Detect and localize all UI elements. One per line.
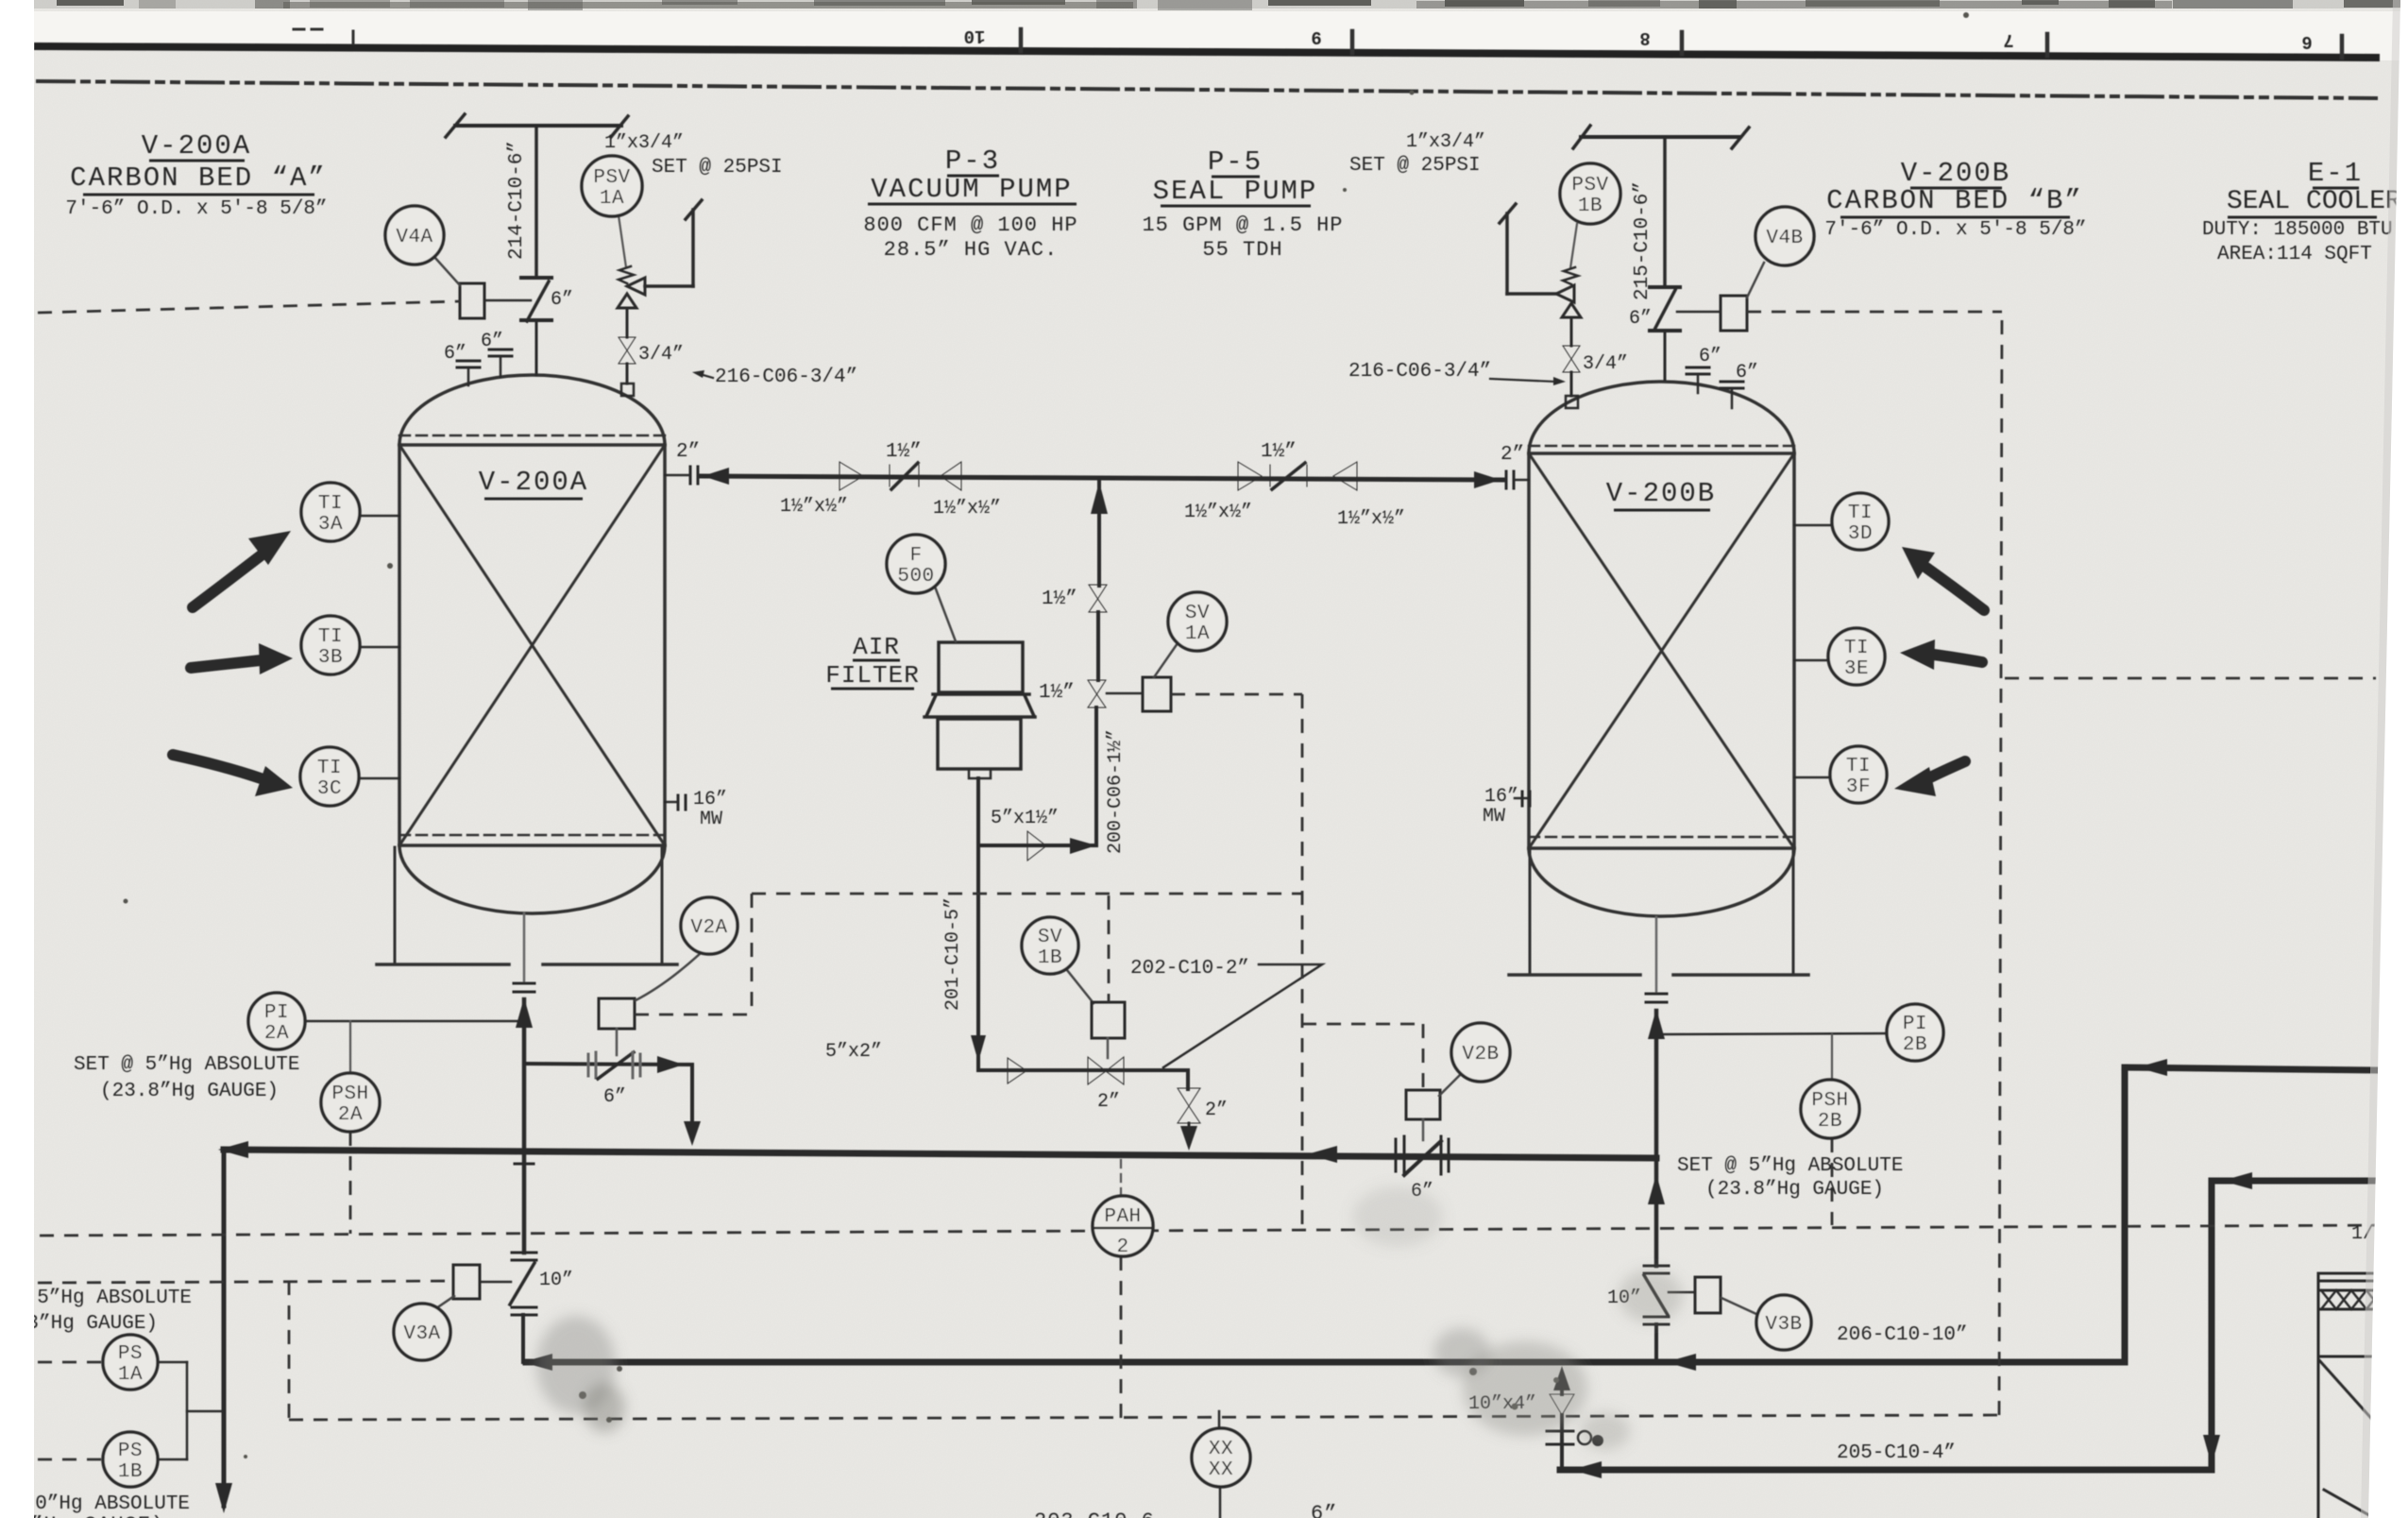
svg-text:2”: 2” [1501, 444, 1524, 466]
svg-text:6”: 6” [551, 289, 573, 311]
svg-text:206-C10-10”: 206-C10-10” [1837, 1324, 1968, 1346]
svg-text:PSV: PSV [593, 167, 630, 189]
svg-text:TI: TI [318, 493, 343, 515]
svg-text:9: 9 [1311, 26, 1321, 47]
svg-text:1A: 1A [1185, 623, 1210, 645]
svg-text:V4B: V4B [1766, 228, 1803, 249]
svg-text:XX: XX [1209, 1459, 1233, 1481]
svg-text:SV: SV [1038, 927, 1062, 948]
svg-text:2B: 2B [1903, 1034, 1927, 1056]
svg-text:6”: 6” [1699, 346, 1721, 367]
svg-text:16”: 16” [1484, 786, 1518, 808]
svg-text:PS: PS [118, 1343, 143, 1365]
svg-text:P-3: P-3 [945, 145, 1000, 177]
svg-text:6”: 6” [444, 343, 466, 365]
svg-text:MW: MW [700, 809, 722, 830]
svg-text:6”: 6” [1311, 1502, 1337, 1518]
svg-text:1½”x½”: 1½”x½” [933, 498, 1001, 520]
svg-text:TI: TI [318, 626, 343, 648]
svg-text:6: 6 [2301, 31, 2312, 52]
svg-text:7'-6” O.D. x 5'-8 5/8”: 7'-6” O.D. x 5'-8 5/8” [65, 198, 327, 220]
svg-text:3D: 3D [1848, 523, 1873, 545]
svg-text:500: 500 [897, 566, 934, 588]
svg-text:(”Hg GAUGE): (”Hg GAUGE) [17, 1513, 164, 1518]
svg-text:V2B: V2B [1462, 1044, 1499, 1066]
svg-text:201-C10-5”: 201-C10-5” [942, 897, 964, 1011]
svg-text:V4A: V4A [396, 227, 432, 248]
svg-text:16”: 16” [693, 789, 727, 810]
svg-text:SV: SV [1185, 603, 1210, 624]
svg-text:203-C10-6: 203-C10-6 [1034, 1509, 1155, 1518]
svg-text:V3A: V3A [403, 1323, 440, 1345]
svg-text:1½”: 1½” [886, 441, 922, 463]
svg-text:3F: 3F [1846, 776, 1871, 798]
svg-text:FILTER: FILTER [825, 661, 920, 690]
svg-text:V2A: V2A [690, 917, 727, 939]
svg-text:1B: 1B [1038, 947, 1062, 969]
svg-text:1A: 1A [600, 188, 624, 210]
svg-text:PSH: PSH [1811, 1090, 1848, 1112]
svg-text:2”: 2” [676, 441, 700, 463]
svg-text:(23.8”Hg GAUGE): (23.8”Hg GAUGE) [100, 1081, 279, 1102]
svg-text:1½”x½”: 1½”x½” [780, 496, 848, 518]
svg-text:3C: 3C [317, 778, 342, 800]
svg-text:SET @ 25PSI: SET @ 25PSI [1349, 155, 1481, 177]
svg-text:10”: 10” [539, 1270, 573, 1291]
svg-text:1”x3/4”: 1”x3/4” [604, 132, 684, 154]
svg-text:3B: 3B [318, 647, 343, 669]
svg-text:5”x1½”: 5”x1½” [991, 808, 1059, 829]
svg-text:215-C10-6”: 215-C10-6” [1632, 181, 1653, 300]
svg-text:1½”x½”: 1½”x½” [1184, 502, 1252, 523]
svg-text:TI: TI [1844, 638, 1869, 659]
svg-text:VACUUM PUMP: VACUUM PUMP [871, 174, 1072, 205]
svg-text:10: 10 [964, 26, 986, 46]
svg-text:202-C10-2”: 202-C10-2” [1130, 958, 1249, 980]
svg-text:1½”: 1½” [1042, 588, 1077, 610]
svg-text:V3B: V3B [1765, 1314, 1802, 1336]
svg-text:V-200B: V-200B [1606, 478, 1716, 509]
svg-text:3/4”: 3/4” [1583, 353, 1628, 375]
svg-text:(23.8”Hg GAUGE): (23.8”Hg GAUGE) [1705, 1179, 1884, 1201]
svg-text:CARBON BED “A”: CARBON BED “A” [70, 162, 327, 194]
svg-text:F: F [909, 545, 922, 567]
svg-text:PSH: PSH [331, 1083, 368, 1105]
svg-text:2B: 2B [1818, 1111, 1842, 1133]
svg-text:TI: TI [317, 758, 342, 779]
svg-text:AREA:114 SQFT: AREA:114 SQFT [2217, 244, 2372, 265]
svg-text:7: 7 [2003, 29, 2013, 50]
svg-text:6”: 6” [603, 1086, 626, 1108]
svg-text:SEAL PUMP: SEAL PUMP [1153, 176, 1318, 207]
svg-text:6”: 6” [481, 331, 503, 352]
svg-text:V-200A: V-200A [479, 467, 588, 498]
svg-text:205-C10-4”: 205-C10-4” [1837, 1442, 1956, 1464]
svg-text:PI: PI [1903, 1014, 1927, 1035]
svg-text:TI: TI [1848, 503, 1873, 524]
svg-text:15 GPM @ 1.5 HP: 15 GPM @ 1.5 HP [1142, 213, 1343, 237]
svg-text:2”: 2” [1205, 1100, 1228, 1121]
svg-text:28.5” HG VAC.: 28.5” HG VAC. [884, 238, 1059, 262]
svg-text:7'-6” O.D. x 5'-8 5/8”: 7'-6” O.D. x 5'-8 5/8” [1824, 219, 2086, 241]
svg-text:1½”: 1½” [1039, 682, 1075, 704]
svg-text:1”x3/4”: 1”x3/4” [1406, 131, 1485, 153]
svg-text:200-C06-1½”: 200-C06-1½” [1105, 729, 1127, 854]
svg-text:P-5: P-5 [1208, 146, 1263, 178]
svg-text:216-C06-3/4”: 216-C06-3/4” [715, 367, 857, 388]
svg-text:AIR: AIR [853, 633, 900, 661]
svg-text:TI: TI [1846, 756, 1871, 777]
svg-text:E-1: E-1 [2308, 158, 2363, 189]
svg-text:PS: PS [118, 1441, 143, 1462]
svg-text:1.0”Hg ABSOLUTE: 1.0”Hg ABSOLUTE [11, 1493, 190, 1515]
svg-text:PAH: PAH [1104, 1206, 1141, 1228]
svg-text:XX: XX [1209, 1439, 1233, 1460]
svg-text:1½”: 1½” [1261, 441, 1297, 463]
svg-text:MW: MW [1483, 806, 1505, 827]
svg-text:1½”x½”: 1½”x½” [1337, 508, 1405, 530]
svg-text:2A: 2A [264, 1023, 289, 1045]
svg-text:5”x2”: 5”x2” [825, 1041, 882, 1063]
svg-text:1B: 1B [1578, 196, 1603, 217]
svg-text:PSV: PSV [1571, 175, 1608, 196]
svg-text:216-C06-3/4”: 216-C06-3/4” [1348, 361, 1491, 383]
svg-text:3E: 3E [1844, 658, 1869, 680]
svg-text:1B: 1B [118, 1461, 143, 1483]
svg-text:V-200A: V-200A [142, 130, 251, 162]
svg-text:55 TDH: 55 TDH [1202, 238, 1282, 262]
svg-text:PI: PI [264, 1002, 289, 1024]
svg-text:SET @ 5”Hg ABSOLUTE: SET @ 5”Hg ABSOLUTE [1677, 1155, 1903, 1177]
svg-text:6”: 6” [1629, 308, 1652, 330]
svg-text:800 CFM @ 100 HP: 800 CFM @ 100 HP [863, 213, 1077, 237]
svg-text:CARBON BED “B”: CARBON BED “B” [1826, 185, 2083, 216]
svg-text:2A: 2A [338, 1104, 363, 1126]
svg-text:2”: 2” [1097, 1091, 1120, 1113]
svg-text:DUTY: 185000 BTU: DUTY: 185000 BTU [2202, 219, 2393, 241]
svg-text:SET @ 25PSI: SET @ 25PSI [652, 157, 783, 179]
svg-text:3A: 3A [318, 514, 343, 536]
svg-text:3/4”: 3/4” [638, 344, 684, 366]
svg-text:214-C10-6”: 214-C10-6” [506, 141, 528, 260]
svg-text:2.5”Hg ABSOLUTE: 2.5”Hg ABSOLUTE [13, 1288, 192, 1309]
svg-text:SEAL COOLER: SEAL COOLER [2227, 187, 2401, 216]
svg-text:8: 8 [1639, 27, 1650, 48]
svg-text:SET @ 5”Hg ABSOLUTE: SET @ 5”Hg ABSOLUTE [74, 1054, 299, 1076]
svg-text:6”: 6” [1736, 362, 1758, 384]
svg-text:1A: 1A [118, 1364, 143, 1386]
svg-text:2: 2 [1116, 1237, 1128, 1258]
